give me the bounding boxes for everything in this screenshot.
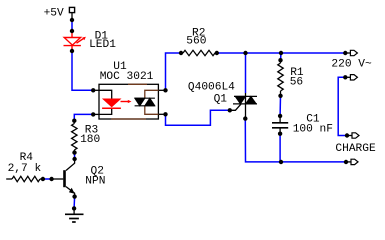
svg-text:+5V: +5V [44,7,64,19]
svg-text:MOC 3021: MOC 3021 [100,71,154,83]
svg-text:Q4006L4: Q4006L4 [188,81,235,93]
svg-text:CHARGE: CHARGE [335,143,376,155]
svg-text:Q1: Q1 [214,94,228,106]
svg-text:2,7 k: 2,7 k [8,163,42,175]
svg-text:180: 180 [80,134,100,146]
svg-text:560: 560 [186,36,206,48]
svg-text:100 nF: 100 nF [293,123,333,135]
svg-text:LED1: LED1 [89,39,116,51]
svg-text:56: 56 [290,77,303,89]
svg-text:NPN: NPN [85,175,105,187]
svg-text:220 V~: 220 V~ [331,59,372,71]
